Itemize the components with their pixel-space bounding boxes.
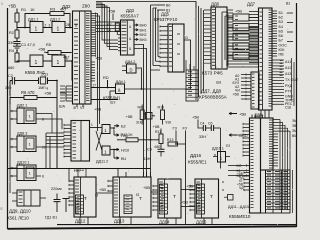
svg-text:КО: КО	[237, 164, 242, 168]
wire	[181, 206, 195, 208]
svg-text:1: 1	[1, 2, 3, 6]
wire long vertical	[185, 131, 187, 225]
svg-text:ШЗ: ШЗ	[110, 101, 115, 105]
wire output H10 arrow	[110, 149, 114, 151]
pins left labels bottom right block	[244, 173, 250, 191]
pins DD2 right upper	[91, 14, 96, 56]
svg-text:С4: С4	[200, 122, 205, 126]
svg-text:ООС: ООС	[279, 43, 288, 47]
wire output V4 arrow	[113, 150, 115, 159]
svg-text:220мк: 220мк	[51, 187, 62, 191]
svg-text:ЗМ: ЗМ	[292, 119, 297, 123]
svg-text:R5: R5	[46, 43, 51, 47]
wire	[41, 119, 62, 129]
svg-text:ША: ША	[59, 105, 65, 109]
wire B1	[157, 9, 165, 11]
frame border left	[7, 8, 9, 229]
wire gate output	[125, 88, 191, 90]
pins DD6 left	[204, 10, 211, 63]
svg-text:R1: R1	[21, 7, 27, 12]
address bus to DD5	[150, 5, 152, 70]
svg-text:31К: 31К	[136, 121, 142, 125]
svg-text:ЧД: ЧД	[239, 186, 244, 190]
top bus wire	[96, 2, 196, 9]
IC DD10 lower body	[261, 170, 266, 213]
wire	[43, 27, 52, 29]
IC ДД12 body	[74, 177, 96, 217]
svg-text:ДД4.1: ДД4.1	[116, 80, 126, 84]
svg-text:1: 1	[91, 123, 93, 127]
svg-text:680: 680	[8, 66, 14, 70]
svg-text:Z80: Z80	[82, 4, 90, 9]
pins DD5 left	[160, 27, 168, 67]
svg-text:+5В: +5В	[239, 112, 246, 117]
wire	[69, 169, 74, 182]
svg-text:ВЧ: ВЧ	[121, 156, 126, 161]
gate DD11.1	[102, 125, 110, 134]
pins DD3 left	[118, 22, 121, 51]
svg-text:6: 6	[66, 57, 68, 61]
svg-text:+5В: +5В	[181, 200, 188, 205]
frame border bottom	[8, 226, 297, 229]
svg-text:ДД11: ДД11	[74, 167, 85, 172]
svg-text:1: 1	[35, 27, 38, 33]
svg-text:Б3: Б3	[279, 20, 283, 24]
wire	[16, 13, 288, 223]
bus line bottom	[57, 224, 296, 226]
wire	[43, 60, 52, 62]
svg-text:Т: Т	[173, 194, 176, 200]
svg-text:R10: R10	[158, 106, 165, 110]
svg-text:ЕЗ: ЕЗ	[226, 144, 230, 148]
wire	[17, 22, 30, 28]
wire	[118, 169, 126, 178]
svg-text:G: G	[185, 35, 188, 40]
svg-text:+5В: +5В	[95, 56, 102, 61]
svg-text:ДД2: ДД2	[62, 4, 71, 9]
svg-text:ІЗ: ІЗ	[136, 193, 139, 197]
svg-text:R4: R4	[9, 48, 15, 53]
wires counters to bus	[80, 217, 212, 225]
svg-text:330: 330	[8, 41, 14, 45]
wire	[181, 189, 195, 191]
IC DD11 body	[71, 121, 90, 162]
svg-text:R11: R11	[155, 130, 161, 134]
svg-text:2: 2	[45, 24, 47, 28]
IC DD10 body	[261, 118, 274, 170]
svg-text:R2: R2	[9, 31, 14, 35]
svg-text:+5В: +5В	[126, 114, 133, 119]
IC DD9.2 body	[17, 190, 40, 206]
pins DD11 left	[64, 125, 71, 157]
cross coupling wires	[96, 131, 102, 151]
wire	[56, 98, 58, 169]
pins top of DD9	[252, 115, 263, 119]
svg-text:R3: R3	[50, 7, 56, 12]
resistor R3	[25, 14, 50, 28]
svg-text:А11: А11	[285, 60, 291, 64]
svg-text:+5В: +5В	[44, 91, 52, 96]
svg-text:В1: В1	[166, 9, 170, 13]
svg-text:ЗМ: ЗМ	[292, 129, 297, 133]
svg-text:8: 8	[42, 118, 44, 122]
pins DD8 left with labels	[241, 75, 251, 100]
svg-text:91К: 91К	[166, 121, 172, 125]
wire output G2 arrow	[110, 127, 114, 129]
wire	[16, 9, 18, 14]
svg-text:К555ИЕ10: К555ИЕ10	[229, 214, 251, 219]
frame border right	[296, 3, 298, 227]
wire	[64, 14, 70, 28]
svg-text:27: 27	[93, 84, 97, 88]
svg-text:ДД12: ДД12	[75, 219, 86, 224]
svg-text:+5В: +5В	[235, 9, 242, 14]
svg-text:ПВ: ПВ	[279, 53, 285, 57]
wire output F32 arrow	[113, 128, 115, 135]
wire B0	[157, 4, 165, 6]
svg-text:СШ: СШ	[285, 106, 291, 110]
svg-text:FУ: FУ	[183, 126, 188, 131]
svg-text:ДД16.1: ДД16.1	[212, 147, 224, 151]
IC DD9 body	[250, 118, 261, 213]
wire mid horizontal	[8, 168, 151, 170]
wire vertical x150.5 down	[150, 70, 152, 177]
svg-text:R6 470: R6 470	[21, 90, 35, 95]
IC DD3 body	[121, 20, 135, 55]
battery GB1	[65, 199, 67, 213]
svg-text:R12 2К: R12 2К	[121, 133, 134, 137]
gate DD8.1	[233, 14, 249, 21]
svg-text:3: 3	[49, 24, 51, 28]
svg-text:+5В: +5В	[233, 93, 240, 97]
svg-text:Т: Т	[84, 196, 87, 202]
svg-text:ІЗ: ІЗ	[95, 194, 98, 198]
svg-text:1К: 1К	[30, 7, 35, 12]
svg-text:R13: R13	[167, 138, 173, 142]
svg-text:А12: А12	[285, 66, 291, 70]
IC ДД15 body	[195, 179, 219, 218]
wire to DD2 pin 26	[65, 27, 73, 29]
svg-text:ZQ1: ZQ1	[41, 73, 48, 77]
svg-text:ДД16: ДД16	[190, 153, 202, 158]
wire	[222, 182, 224, 190]
wire	[151, 191, 158, 193]
data bus DD6 to DD7	[227, 10, 259, 67]
wire	[144, 172, 151, 177]
svg-text:В1: В1	[286, 2, 290, 6]
svg-text:26: 26	[66, 23, 70, 27]
svg-text:ДД7: ДД7	[247, 2, 256, 7]
svg-text:&: &	[118, 88, 121, 93]
switch SA1	[228, 195, 234, 201]
pins DD7 right upper	[272, 11, 277, 56]
svg-text:+5В: +5В	[99, 187, 106, 192]
wire	[134, 49, 147, 178]
svg-text:1: 1	[57, 60, 60, 66]
svg-text:ВН3: ВН3	[140, 38, 147, 42]
address bus to DD6	[195, 2, 197, 101]
wire WR	[91, 99, 118, 101]
gate DD8.2	[233, 24, 249, 31]
power +5V arrow	[229, 113, 237, 115]
IC DD5 body	[168, 24, 184, 72]
svg-text:+5В: +5В	[38, 47, 46, 52]
connector cell block	[266, 170, 291, 213]
wire left rail	[9, 104, 11, 193]
resistor R2	[16, 28, 18, 31]
svg-text:Т: Т	[210, 194, 213, 200]
svg-text:ВН1: ВН1	[140, 28, 147, 32]
svg-text:ТХ ОUТ: ТХ ОUТ	[285, 78, 299, 82]
svg-text:+5В: +5В	[8, 4, 16, 9]
svg-text:ДД6: ДД6	[211, 2, 220, 7]
svg-text:Б4: Б4	[279, 25, 283, 29]
svg-text:ГД1 В1: ГД1 В1	[45, 216, 57, 220]
outputs DD3 with labels	[134, 24, 138, 26]
svg-text:ВН0: ВН0	[140, 24, 147, 28]
pins DD10 right	[273, 120, 278, 166]
bus right of DD10	[279, 120, 281, 211]
svg-text:GND: GND	[239, 133, 248, 138]
svg-text:Б2: Б2	[121, 124, 126, 129]
svg-text:ВМ: ВМ	[292, 134, 297, 138]
svg-text:+5В: +5В	[143, 185, 150, 190]
svg-text:ЗВ: ЗВ	[292, 124, 297, 128]
svg-text:1: 1	[57, 27, 60, 33]
ground GND arrow	[229, 134, 237, 136]
bus wires to DD3 inputs	[96, 22, 119, 32]
svg-text:1: 1	[35, 60, 38, 66]
svg-text:В0: В0	[166, 4, 170, 8]
wire DD11 output	[90, 127, 103, 129]
svg-text:1МГц: 1МГц	[38, 85, 49, 90]
svg-text:ДД14: ДД14	[159, 220, 170, 225]
inverter DD1.4	[52, 55, 65, 67]
svg-text:К555ЛЕ1: К555ЛЕ1	[188, 160, 207, 165]
svg-text:ГЗ: ГЗ	[173, 126, 178, 131]
pins DD7 right lower	[272, 60, 284, 104]
IC DD6 body	[211, 7, 227, 69]
svg-text:15Н: 15Н	[144, 157, 151, 161]
IC ДД14 body	[158, 179, 181, 218]
svg-text:К555ЛА7: К555ЛА7	[121, 14, 140, 19]
svg-text:ДД11...ДД15: ДД11...ДД15	[228, 205, 249, 209]
svg-text:С5: С5	[147, 148, 152, 152]
svg-text:ДД15: ДД15	[196, 220, 207, 225]
svg-text:+5В: +5В	[94, 107, 102, 112]
svg-text:Б2: Б2	[279, 16, 283, 20]
svg-text:А13: А13	[285, 72, 291, 76]
wires to DD11	[46, 133, 50, 169]
IC ДД13 body	[113, 177, 151, 217]
wire	[220, 128, 222, 169]
svg-text:Б6: Б6	[279, 34, 283, 38]
wire	[56, 81, 58, 99]
wires K0-K2 to DD9	[228, 166, 244, 176]
wire	[65, 61, 72, 81]
svg-text:С1 47,0: С1 47,0	[21, 42, 36, 47]
gate DD8.3	[233, 33, 249, 40]
svg-text:+5В: +5В	[192, 115, 199, 120]
svg-text:КР580ВВ55А: КР580ВВ55А	[199, 95, 228, 100]
gate DD8.4	[233, 43, 249, 50]
wire	[96, 192, 113, 194]
svg-text:33Н: 33Н	[199, 135, 206, 139]
resistor R5	[45, 52, 48, 53]
svg-text:ДД1.1: ДД1.1	[28, 18, 38, 22]
svg-text:Б1: Б1	[279, 11, 283, 15]
IC DD7 body	[259, 8, 273, 110]
bus wires top right	[222, 12, 225, 68]
svg-text:ДД2.1: ДД2.1	[17, 104, 27, 108]
svg-text:+5В: +5В	[153, 124, 160, 129]
svg-text:Б5: Б5	[279, 29, 283, 33]
IC DD2 body	[73, 11, 92, 104]
svg-text:ДД10.1: ДД10.1	[17, 161, 30, 165]
wire DD2 pin 27 to DD4.1	[91, 87, 116, 89]
svg-text:Н/10: Н/10	[121, 148, 130, 153]
gate DD8.5	[233, 52, 249, 59]
inverter DD1.3	[30, 55, 43, 67]
pins DD7 bottom	[261, 110, 269, 118]
svg-text:ДД9, ДД10: ДД9, ДД10	[9, 209, 31, 214]
svg-text:ВН2: ВН2	[140, 33, 147, 37]
svg-text:R8: R8	[138, 106, 143, 110]
svg-text:8: 8	[42, 175, 44, 179]
svg-text:Ш8: Ш8	[216, 81, 221, 85]
bus wires right of DD7	[291, 58, 293, 100]
resistor R1	[15, 13, 19, 22]
svg-text:ДД11.2: ДД11.2	[96, 160, 108, 164]
svg-text:КР537РУ10: КР537РУ10	[154, 17, 178, 22]
svg-text:Б7: Б7	[279, 39, 283, 43]
svg-text:К573 РФ5: К573 РФ5	[202, 71, 223, 76]
svg-text:К555ЛИ1: К555ЛИ1	[103, 96, 121, 101]
svg-text:ДД4.2: ДД4.2	[125, 60, 135, 64]
pin ladder below DD5	[186, 70, 198, 101]
pins DD2 left	[66, 86, 73, 101]
bus wires to DD3 lower pins	[96, 3, 118, 50]
pins DD2 right lower	[91, 62, 95, 81]
svg-text:К561 ЛЕ10: К561 ЛЕ10	[7, 216, 29, 221]
gate DD16.2	[146, 113, 153, 120]
svg-text:ДД1.2: ДД1.2	[50, 18, 60, 22]
svg-text:С6: С6	[208, 122, 213, 126]
ground	[13, 46, 21, 50]
svg-text:Т: Т	[139, 196, 142, 202]
svg-text:В: В	[214, 153, 216, 157]
svg-text:680: 680	[155, 145, 161, 149]
wires data bus to edge	[287, 13, 293, 42]
wire	[134, 45, 144, 178]
svg-text:ДД7, ДД8: ДД7, ДД8	[201, 89, 222, 94]
svg-text:ДД13: ДД13	[114, 219, 125, 224]
capacitor C1	[14, 42, 21, 44]
bus wires DD2 to memory	[96, 14, 98, 132]
gate DD11.2	[102, 146, 110, 155]
svg-text:D: D	[130, 68, 133, 73]
svg-text:ЮК: ЮК	[279, 48, 286, 52]
svg-text:ДД3: ДД3	[126, 8, 135, 13]
svg-text:ДД8.3: ДД8.3	[17, 132, 27, 136]
IC DD8 body	[251, 72, 259, 109]
pins DD9 left	[243, 124, 250, 156]
svg-text:RD: RD	[103, 75, 109, 80]
